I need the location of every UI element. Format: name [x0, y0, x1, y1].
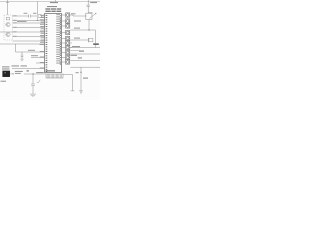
- capacitor C2 to ground: [21, 52, 24, 59]
- wire net y41: [13, 40, 45, 42]
- wire net VDD y16 right: [73, 15, 87, 16]
- component box D1 top right: [86, 13, 92, 19]
- wire trimmer diagonal arrow: [90, 13, 97, 18]
- label header row1: [45, 8, 61, 9]
- transistor module TR1 dashed box: [4, 15, 13, 40]
- wire net y68.5: [12, 68, 45, 70]
- label values left area: [1, 13, 44, 82]
- wire net y52: [16, 51, 45, 53]
- ground GND2: [30, 94, 36, 96]
- wire branch vertical x37.5: [36, 2, 38, 21]
- component box X1: [38, 15, 41, 18]
- junction node J1: [32, 73, 33, 74]
- wire net y50.5 short: [70, 50, 84, 52]
- wire net y47.5 full: [70, 47, 100, 49]
- wire riser x89.5: [88, 20, 90, 31]
- wire riser battery x81: [79, 67, 83, 91]
- wire net y32 full width: [0, 31, 45, 33]
- wire net y23: [13, 22, 45, 24]
- transistor Q2: [6, 32, 11, 36]
- capacitor C1: [29, 15, 31, 18]
- wire net y60.5 full: [70, 60, 100, 62]
- label module pin names: [13, 15, 16, 36]
- label subtitle: [47, 6, 57, 7]
- wire IC right pin stubs: [62, 15, 66, 62]
- wire network to riser x72.5: [63, 75, 74, 91]
- label tick near node C: [76, 72, 79, 73]
- wire net y30: [70, 29, 95, 31]
- wire riser x95.5: [95, 30, 97, 48]
- connector P1 pin boxes: [66, 13, 70, 64]
- resistor R1 inside module: [6, 17, 9, 20]
- label header row2: [45, 11, 61, 12]
- resistor network RN1 hatched: [46, 74, 63, 78]
- junction node B: [88, 29, 89, 30]
- capacitor C3 branch: [31, 74, 35, 94]
- label IC left lower pin names: [40, 51, 44, 68]
- LED D2 dark package: [3, 71, 10, 77]
- IC U1 body: [45, 14, 62, 73]
- label values right area: [71, 2, 99, 79]
- transistor Q1: [6, 22, 11, 26]
- wire net y27.5: [13, 27, 45, 29]
- junction node C: [80, 72, 81, 73]
- wire net y40: [70, 39, 88, 41]
- crystal Y1: [89, 38, 93, 42]
- wire input terminal top-left: [6, 0, 9, 15]
- wire net y44 full width: [0, 43, 45, 45]
- ground GND1: [20, 59, 23, 61]
- wire net y57.5: [31, 57, 45, 59]
- wire net y54 full: [70, 53, 100, 55]
- wire tick above title: [54, 0, 57, 2]
- wire net A y16: [13, 15, 38, 17]
- wire top bus rail y1.5: [0, 1, 100, 3]
- wire X1 to IC: [41, 15, 44, 17]
- wire stubs right of connector: [70, 15, 73, 48]
- wire net y36.5: [13, 36, 45, 38]
- wire net y20.5: [13, 20, 45, 22]
- label IC right pin names: [56, 14, 61, 63]
- label IC left pin names column: [40, 15, 44, 45]
- capacitor C4 top right: [86, 0, 92, 13]
- wire arrow from LED: [10, 73, 14, 74]
- label IC right pin numbers: [60, 15, 61, 64]
- wire net y63: [36, 62, 45, 64]
- wire net y74: [24, 73, 46, 75]
- label IC bottom VSS row: [46, 70, 56, 71]
- wire riser x15.5: [15, 44, 17, 52]
- label check mark near C3: [37, 80, 40, 83]
- label title above IC: [50, 2, 58, 3]
- label IC left pin numbers: [46, 15, 48, 72]
- wire arrow tail below: [80, 91, 81, 94]
- wire net y67.2 full: [70, 66, 100, 68]
